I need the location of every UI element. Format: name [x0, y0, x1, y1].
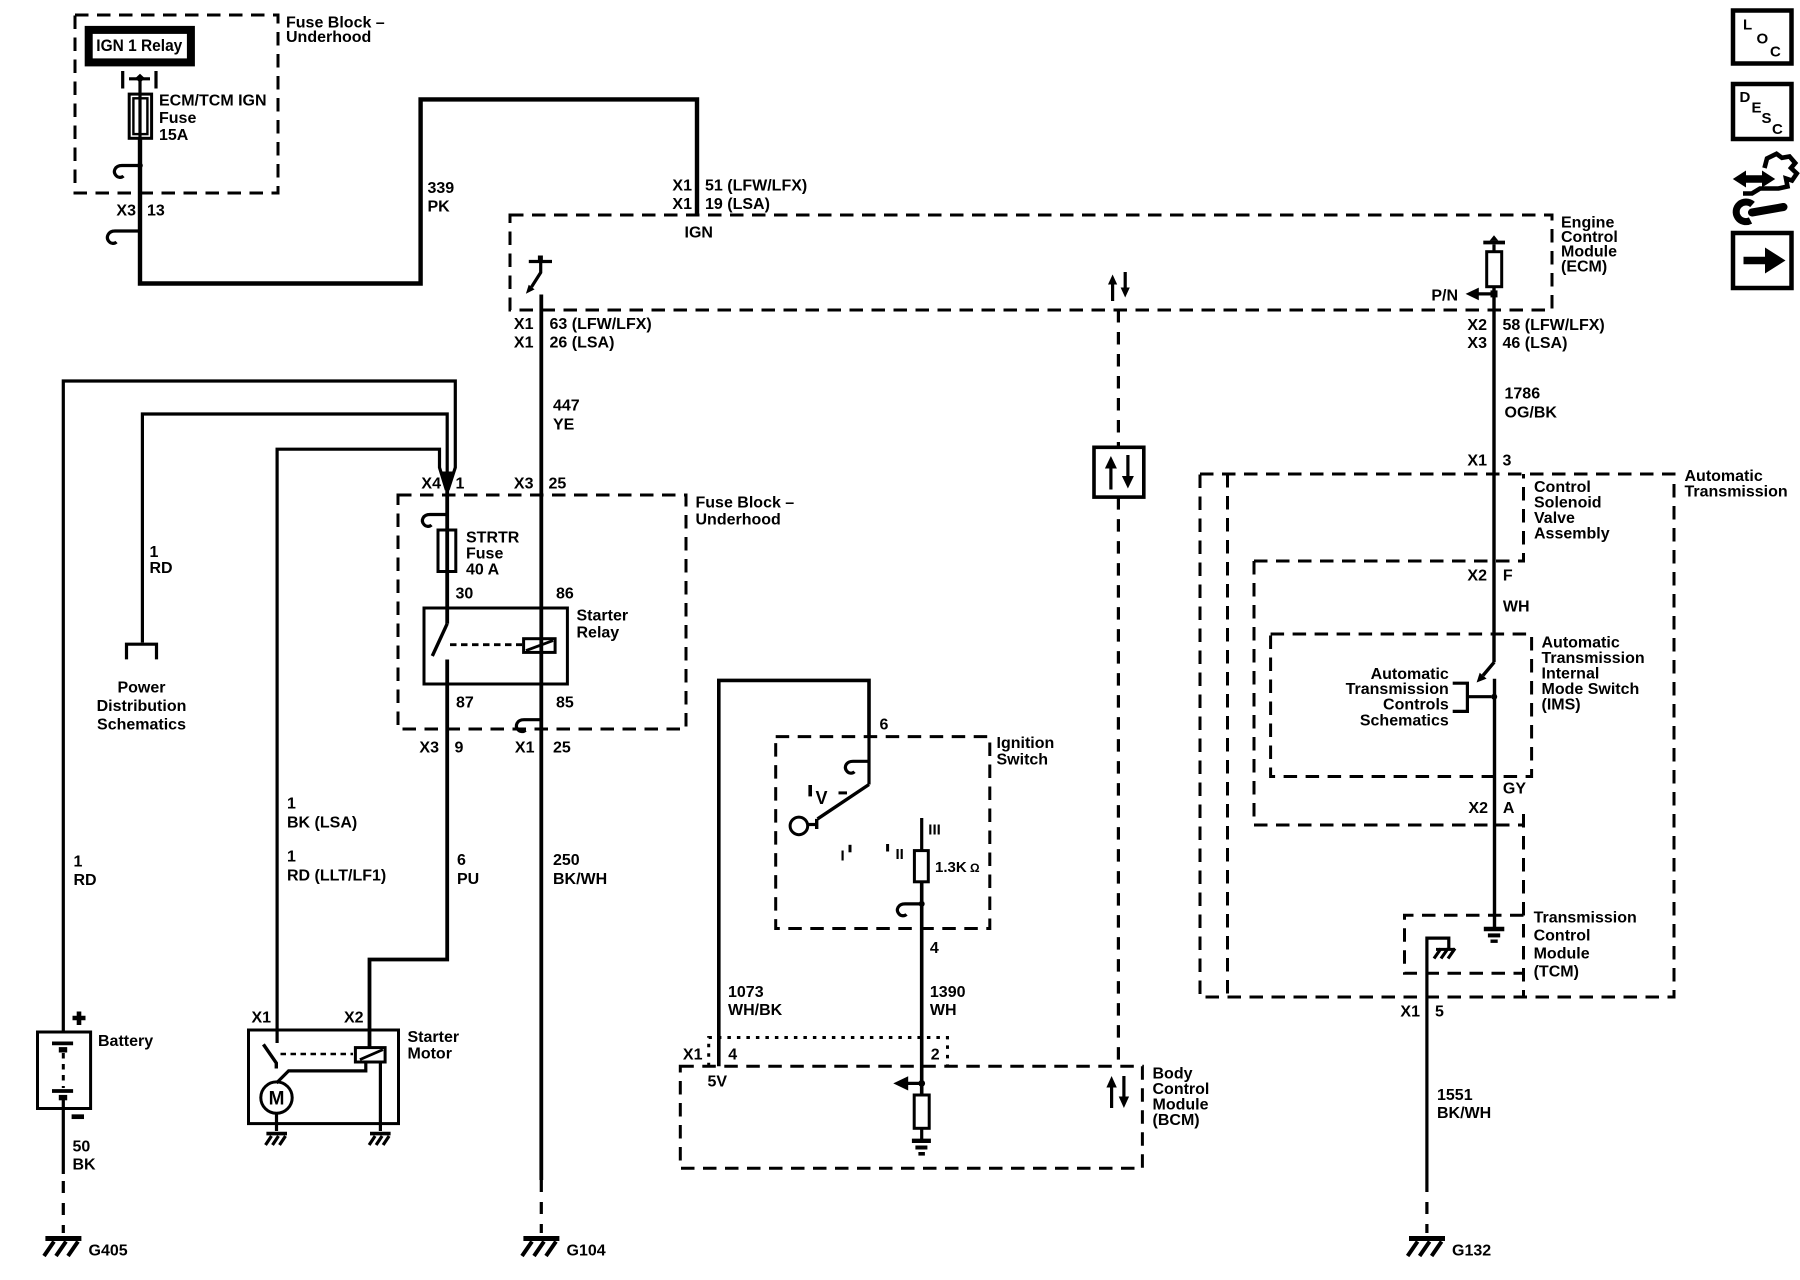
wire from starter motor X1 B+	[277, 449, 446, 1030]
connector C3 on STRTR fuse input	[422, 515, 447, 527]
svg-text:RD: RD	[74, 872, 97, 889]
wire IMS to TCM ground	[1493, 679, 1496, 927]
svg-text:X4: X4	[421, 476, 441, 493]
module U BCM dashed box	[680, 1066, 1142, 1168]
svg-text:BK/WH: BK/WH	[1437, 1105, 1491, 1122]
detent position IV mark	[808, 785, 812, 796]
icon DESC box	[1733, 84, 1792, 139]
automatic transmission outer dashed box	[1200, 474, 1674, 997]
svg-text:(IMS): (IMS)	[1542, 697, 1581, 714]
svg-text:(BCM): (BCM)	[1153, 1112, 1200, 1129]
wire contact to motor	[277, 1062, 366, 1083]
ground (starter motor case right)	[370, 1132, 391, 1136]
svg-text:Transmission: Transmission	[1534, 910, 1637, 927]
svg-text:(ECM): (ECM)	[1561, 259, 1607, 276]
ignition switch S dashed box	[776, 737, 990, 929]
svg-text:Relay: Relay	[577, 625, 620, 642]
svg-text:3: 3	[1503, 453, 1512, 470]
svg-text:L: L	[1743, 17, 1752, 34]
svg-text:Fuse: Fuse	[159, 110, 196, 127]
relay K Starter Relay box	[424, 608, 567, 684]
switch S IMS dashed box	[1271, 634, 1532, 777]
icon pictogram wrench	[1752, 207, 1784, 213]
svg-text:WH: WH	[1503, 599, 1530, 616]
svg-text:Starter: Starter	[408, 1029, 460, 1046]
svg-text:Transmission: Transmission	[1685, 484, 1788, 501]
svg-text:1: 1	[150, 544, 159, 561]
battery BT box	[38, 1032, 91, 1109]
starter relay coil	[524, 639, 556, 653]
svg-text:YE: YE	[553, 417, 575, 434]
svg-text:RD (LLT/LF1): RD (LLT/LF1)	[287, 868, 386, 885]
svg-text:250: 250	[553, 852, 580, 869]
wire motor to ground	[275, 1113, 278, 1131]
svg-text:I: I	[841, 848, 845, 865]
svg-text:STRTR: STRTR	[466, 530, 520, 547]
svg-text:25: 25	[549, 476, 567, 493]
ground (earth) at IMS wire end	[1484, 927, 1505, 931]
svg-text:1551: 1551	[1437, 1087, 1473, 1104]
battery plus terminal	[73, 1012, 86, 1026]
svg-text:51 (LFW/LFX): 51 (LFW/LFX)	[705, 178, 807, 195]
fuse block underhood (top) dashed box	[75, 15, 278, 193]
wire 1551 dashed to G132	[1425, 1180, 1428, 1233]
svg-text:BK/WH: BK/WH	[553, 871, 607, 888]
svg-text:X1: X1	[672, 178, 692, 195]
svg-text:PK: PK	[428, 199, 451, 216]
svg-text:50: 50	[73, 1139, 91, 1156]
wire 339 PK from fuse to ECM IGN input	[140, 99, 697, 283]
svg-text:X3: X3	[419, 740, 439, 757]
fuse F ECM/TCM IGN 15A	[129, 94, 151, 138]
wire relay to fuse	[138, 80, 141, 95]
svg-text:Distribution: Distribution	[97, 698, 187, 715]
svg-text:X1: X1	[1467, 453, 1487, 470]
svg-text:X1: X1	[1400, 1004, 1420, 1021]
svg-text:F: F	[1503, 568, 1513, 585]
detent position I mark	[849, 845, 852, 853]
resistor R pulldown in BCM	[914, 1095, 929, 1128]
svg-text:Assembly: Assembly	[1534, 526, 1610, 543]
svg-text:5V: 5V	[708, 1074, 728, 1091]
svg-text:1: 1	[74, 854, 83, 871]
svg-text:G104: G104	[567, 1243, 606, 1260]
wire 50 BK battery negative	[62, 1109, 65, 1175]
svg-text:Motor: Motor	[408, 1046, 452, 1063]
wire coil to ground	[379, 1062, 382, 1131]
svg-text:Automatic: Automatic	[1685, 468, 1763, 485]
svg-text:Controls: Controls	[1383, 697, 1449, 714]
svg-text:III: III	[928, 822, 941, 839]
connector C5 inside switch	[867, 737, 870, 785]
ground (starter motor case left)	[266, 1132, 287, 1136]
svg-text:Module: Module	[1534, 946, 1590, 963]
connector C2 below fuse block	[107, 231, 140, 243]
svg-text:IGN: IGN	[685, 225, 713, 242]
svg-text:1786: 1786	[1505, 386, 1541, 403]
off-page connector double-arrow box	[1094, 447, 1144, 497]
svg-text:M: M	[269, 1089, 285, 1110]
svg-text:339: 339	[428, 180, 455, 197]
svg-text:X1: X1	[683, 1047, 703, 1064]
svg-text:86: 86	[556, 586, 574, 603]
resistor R pull-up P/N in ECM	[1483, 241, 1505, 245]
svg-text:Switch: Switch	[997, 752, 1049, 769]
X2 connector box edges	[1254, 561, 1524, 825]
TCM chassis ground lead	[1427, 938, 1449, 1180]
svg-text:BK: BK	[73, 1157, 97, 1174]
svg-text:S: S	[1762, 110, 1772, 127]
node X4-1 stud wire	[446, 488, 449, 530]
svg-text:Automatic: Automatic	[1542, 635, 1620, 652]
battery cell plates	[52, 1042, 73, 1046]
svg-text:Underhood: Underhood	[696, 512, 781, 529]
svg-text:Body: Body	[1153, 1065, 1193, 1082]
svg-text:15A: 15A	[159, 127, 189, 144]
svg-text:G405: G405	[89, 1243, 128, 1260]
svg-text:2: 2	[931, 1047, 940, 1064]
motor M Starter Motor box	[249, 1030, 399, 1124]
svg-text:13: 13	[147, 203, 165, 220]
power distribution connector symbol	[127, 644, 157, 659]
svg-text:6: 6	[880, 717, 889, 734]
connector C4 on 85 output	[516, 720, 541, 732]
svg-text:C: C	[1770, 44, 1781, 61]
svg-text:1: 1	[456, 476, 465, 493]
svg-text:PU: PU	[457, 871, 479, 888]
svg-text:II: II	[896, 846, 904, 863]
svg-text:GY: GY	[1503, 781, 1526, 798]
svg-text:X3: X3	[1467, 335, 1487, 352]
svg-text:Solenoid: Solenoid	[1534, 495, 1602, 512]
svg-text:6: 6	[457, 852, 466, 869]
icon pictogram component blob	[1743, 154, 1797, 194]
svg-text:V: V	[816, 788, 828, 808]
detent position II mark	[886, 844, 889, 852]
svg-text:46 (LSA): 46 (LSA)	[1503, 335, 1568, 352]
ground G132	[1409, 1236, 1445, 1241]
svg-text:447: 447	[553, 398, 580, 415]
svg-text:X1: X1	[514, 335, 534, 352]
svg-text:A: A	[1503, 800, 1515, 817]
svg-text:X3: X3	[514, 476, 534, 493]
svg-text:P/N: P/N	[1431, 288, 1458, 305]
svg-text:IGN 1 Relay: IGN 1 Relay	[96, 36, 182, 55]
svg-text:26 (LSA): 26 (LSA)	[550, 335, 615, 352]
wire 1786 OG/BK from ECM to IMS	[1492, 287, 1495, 663]
svg-text:Power: Power	[117, 680, 165, 697]
connector C6 below resistor	[897, 904, 921, 916]
svg-text:1: 1	[287, 796, 296, 813]
IMS wiper blade	[1483, 662, 1494, 675]
svg-text:Control: Control	[1534, 928, 1591, 945]
wire 447 YE switch output	[539, 295, 543, 1181]
icon LOC box	[1733, 11, 1792, 64]
svg-text:Schematics: Schematics	[97, 717, 186, 734]
svg-text:Fuse: Fuse	[466, 546, 503, 563]
svg-text:4: 4	[728, 1047, 737, 1064]
svg-text:Schematics: Schematics	[1360, 713, 1449, 730]
svg-text:Underhood: Underhood	[286, 29, 371, 46]
resistor R 1.3K in switch	[920, 818, 923, 851]
module U ECM dashed box	[510, 215, 1552, 310]
ignition switch rotor blade	[817, 785, 869, 830]
svg-text:X2: X2	[1468, 800, 1488, 817]
svg-text:Ignition: Ignition	[997, 735, 1055, 752]
off-page dashed link ECM to BCM	[1117, 310, 1120, 447]
svg-text:(TCM): (TCM)	[1534, 964, 1579, 981]
svg-text:1390: 1390	[930, 984, 966, 1001]
svg-text:Control: Control	[1153, 1081, 1210, 1098]
svg-text:O: O	[1757, 31, 1769, 48]
wire 250 BK/WH dashed to G104	[540, 1180, 543, 1233]
wire 6 PU relay 87 to starter solenoid	[370, 660, 448, 1048]
node P/N with arrow	[1471, 292, 1494, 295]
svg-text:OG/BK: OG/BK	[1505, 405, 1558, 422]
svg-text:Transmission: Transmission	[1542, 650, 1645, 667]
ground G104	[523, 1236, 559, 1241]
svg-text:X1: X1	[514, 316, 534, 333]
ground G405	[45, 1236, 81, 1241]
svg-text:4: 4	[930, 940, 939, 957]
svg-text:Battery: Battery	[98, 1033, 153, 1050]
icon forward arrow box	[1733, 233, 1792, 288]
svg-text:G132: G132	[1452, 1243, 1491, 1260]
svg-text:X1: X1	[672, 196, 692, 213]
off-page dashed link continues to BCM	[1117, 497, 1120, 1066]
battery minus terminal	[72, 1114, 84, 1119]
wire 1390 WH switch to BCM	[920, 882, 924, 1095]
svg-text:X1: X1	[515, 740, 535, 757]
svg-text:1073: 1073	[728, 984, 764, 1001]
svg-text:63 (LFW/LFX): 63 (LFW/LFX)	[550, 316, 652, 333]
svg-text:1: 1	[287, 849, 296, 866]
svg-text:Control: Control	[1534, 479, 1591, 496]
svg-text:5: 5	[1435, 1004, 1444, 1021]
svg-text:87: 87	[456, 695, 474, 712]
svg-text:9: 9	[455, 740, 464, 757]
svg-text:58 (LFW/LFX): 58 (LFW/LFX)	[1503, 317, 1605, 334]
wire battery positive feed to X4-1	[63, 381, 455, 1032]
svg-text:Valve: Valve	[1534, 510, 1575, 527]
svg-text:X3: X3	[116, 203, 136, 220]
connector strip X1 on BCM (dotted)	[709, 1038, 948, 1067]
switch S ignition relay contact in ECM	[529, 260, 552, 263]
svg-text:X2: X2	[344, 1010, 364, 1027]
svg-text:X2: X2	[1467, 317, 1487, 334]
svg-text:30: 30	[456, 586, 474, 603]
svg-text:Fuse Block –: Fuse Block –	[696, 495, 795, 512]
svg-text:C: C	[1772, 121, 1783, 138]
relay contact terminals	[123, 71, 156, 89]
fuse F STRTR 40A	[438, 530, 456, 572]
svg-text:ECM/TCM IGN: ECM/TCM IGN	[159, 93, 267, 110]
svg-text:E: E	[1752, 100, 1762, 117]
starter relay contact blade	[432, 624, 447, 656]
solenoid coil	[355, 1048, 385, 1062]
connector C1 on fuse output	[114, 166, 140, 178]
module U TCM dashed box	[1405, 915, 1524, 973]
off-page arrows at ECM bottom	[1111, 283, 1114, 301]
fuse block underhood (second) dashed box	[398, 495, 686, 729]
svg-text:25: 25	[553, 740, 571, 757]
svg-text:WH: WH	[930, 1002, 957, 1019]
wire to power distribution schematics	[142, 414, 447, 643]
svg-text:X2: X2	[1467, 568, 1487, 585]
svg-text:X1: X1	[252, 1010, 272, 1027]
solenoid contact blade	[276, 1030, 279, 1043]
svg-text:Starter: Starter	[577, 608, 629, 625]
starter relay actuation dashed link	[450, 643, 522, 646]
solenoid actuation dashed link	[281, 1053, 354, 1056]
motor M circle	[261, 1082, 292, 1113]
svg-text:19 (LSA): 19 (LSA)	[705, 196, 770, 213]
relay K IGN 1 Relay label box	[89, 30, 191, 63]
svg-text:Internal: Internal	[1542, 666, 1600, 683]
svg-text:Mode Switch: Mode Switch	[1542, 681, 1640, 698]
svg-text:40 A: 40 A	[466, 562, 500, 579]
svg-text:WH/BK: WH/BK	[728, 1002, 783, 1019]
svg-text:85: 85	[556, 695, 574, 712]
wire 1073 WH/BK BCM to ignition switch	[719, 680, 869, 1066]
ground (BCM internal)	[912, 1139, 931, 1143]
svg-text:1.3K Ω: 1.3K Ω	[935, 859, 980, 876]
svg-text:Module: Module	[1153, 1097, 1209, 1114]
off-page arrows in BCM	[1110, 1086, 1113, 1108]
svg-text:BK (LSA): BK (LSA)	[287, 815, 357, 832]
automatic transmission inner wall	[1226, 474, 1229, 997]
bracket to AT controls schematics	[1453, 683, 1492, 711]
icon data exchange pictogram (double arrow)	[1733, 171, 1775, 188]
node arrow at pin 2 input	[898, 1082, 922, 1085]
svg-text:RD: RD	[150, 560, 173, 577]
control solenoid valve assembly box edges	[1254, 474, 1524, 561]
svg-text:D: D	[1740, 89, 1751, 106]
